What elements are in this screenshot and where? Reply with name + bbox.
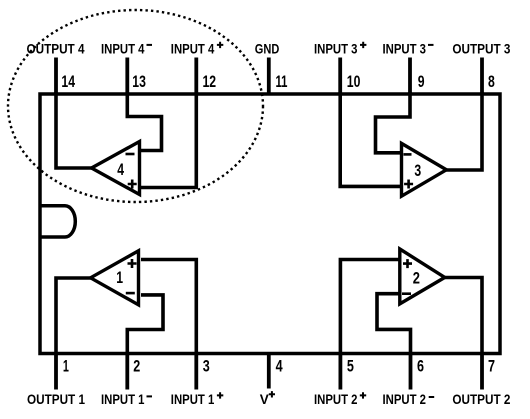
svg-text:INPUT 2: INPUT 2 [383,392,427,408]
IC package body outline [40,94,500,354]
op-amp U1 triangle [91,251,139,305]
svg-text:6: 6 [417,358,424,376]
svg-text:INPUT 4: INPUT 4 [171,41,215,57]
wire pin 6 to U2 inverting input [377,294,411,355]
wire pin 2 to U1 inverting input [127,295,163,355]
pin 10 lead [338,58,342,95]
svg-text:V: V [260,392,270,408]
pin-1 index notch on package left edge [40,206,75,237]
svg-text:8: 8 [488,73,495,91]
svg-text:OUTPUT 1: OUTPUT 1 [27,392,85,408]
pin 5 lead [338,354,342,390]
pin 8 lead [480,58,484,95]
op-amp U2 triangle [400,249,445,304]
svg-text:3: 3 [203,358,210,376]
op-amp U4 triangle [92,142,140,195]
svg-text:OUTPUT 4: OUTPUT 4 [27,41,85,57]
op-amp U3 triangle [402,143,447,196]
pin 12 lead [194,58,198,95]
wire pin 9 to U3 inverting input [376,92,411,153]
svg-text:2: 2 [413,269,420,287]
svg-text:2: 2 [133,358,140,376]
U3 inverting input marker (-) [404,153,412,156]
svg-text:INPUT 3: INPUT 3 [383,41,427,57]
svg-text:10: 10 [347,73,361,91]
U3 non-inverting input marker (+) [404,180,413,189]
svg-text:9: 9 [418,73,425,91]
svg-text:INPUT 1: INPUT 1 [171,392,215,408]
svg-text:13: 13 [132,73,146,91]
svg-text:OUTPUT 2: OUTPUT 2 [452,392,510,408]
svg-text:INPUT 1: INPUT 1 [101,392,145,408]
pin 3 lead [194,354,198,390]
U1 inverting input marker (-) [126,292,135,295]
pin 14 lead [54,58,58,95]
pin 7 lead [480,354,484,390]
pin 11 lead (GND) [267,58,271,96]
wire pin 5 to U2 non-inverting input [340,260,402,356]
svg-text:5: 5 [347,358,354,376]
svg-text:OUTPUT 3: OUTPUT 3 [452,41,510,57]
pin 1 lead [54,354,58,390]
svg-text:4: 4 [276,358,283,376]
U2 non-inverting input marker (+) [403,259,412,268]
pin 2 lead [125,354,129,390]
wire pin 13 to U4 inverting input [127,92,161,151]
svg-text:14: 14 [61,73,75,91]
svg-text:4: 4 [117,161,124,179]
svg-text:7: 7 [488,358,495,376]
wire U4 output to pin 14 [56,92,93,168]
svg-text:INPUT 2: INPUT 2 [314,392,358,408]
pin 6 lead [409,354,413,390]
wire U3 output to pin 8 [444,92,482,170]
wire pin 10 to U3 non-inverting input [340,92,400,186]
pin 9 lead [408,58,412,95]
U4 non-inverting input marker (+) [128,180,137,189]
wire pin 12 to U4 non-inverting input [141,92,196,188]
svg-text:12: 12 [203,73,217,91]
svg-text:GND: GND [255,41,279,57]
pin 4 lead (V+) [267,352,271,389]
wire U1 output to pin 1 [56,278,93,355]
wire pin 3 to U1 non-inverting input [141,260,196,356]
svg-text:1: 1 [116,269,123,287]
highlight ellipse (dotted) around op-amp U4 [8,10,263,202]
pin 13 lead [125,58,129,95]
svg-text:11: 11 [276,73,288,91]
svg-text:1: 1 [63,358,69,376]
U1 non-inverting input marker (+) [128,259,137,268]
svg-text:3: 3 [414,162,421,180]
U2 inverting input marker (-) [402,292,411,295]
svg-text:INPUT 4: INPUT 4 [101,41,145,57]
U4 inverting input marker (-) [126,153,135,156]
svg-text:INPUT 3: INPUT 3 [314,41,358,57]
wire U2 output to pin 7 [443,278,482,356]
